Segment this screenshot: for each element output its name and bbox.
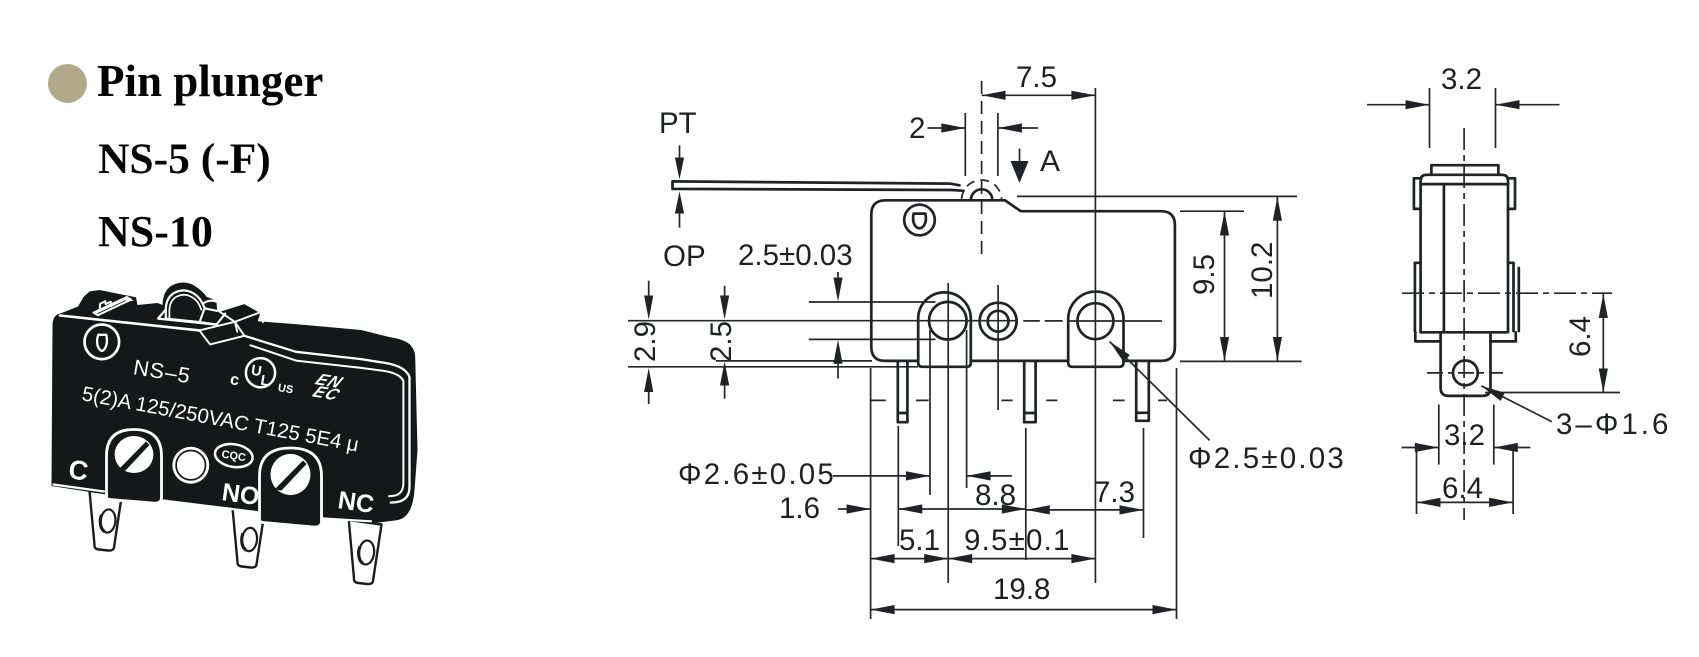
photo: ENEC logo — [305, 370, 352, 404]
side view: horizontal centerline upper — [1402, 292, 1612, 294]
photo: cULus logo — [229, 358, 294, 396]
svg-text:Pin plunger: Pin plunger — [97, 56, 323, 106]
svg-text:1.6: 1.6 — [779, 492, 820, 525]
svg-text:19.8: 19.8 — [993, 573, 1050, 606]
svg-text:7.5: 7.5 — [1016, 61, 1057, 94]
svg-text:2: 2 — [909, 112, 925, 145]
front view: left hole (2.6x2.5) — [929, 302, 967, 340]
front view: horizontal centerline through holes — [628, 320, 1162, 322]
side view: inner vertical line — [1443, 184, 1446, 332]
svg-text:OP: OP — [663, 240, 706, 273]
photo: NC terminal blade — [349, 520, 382, 584]
photo: plunger base platform — [158, 310, 225, 325]
front view: plunger pin solid semicircle — [971, 189, 992, 200]
photo: left screw boss — [107, 430, 162, 504]
front view: vertical centerline right hole / 7.5 extension — [1094, 88, 1096, 583]
side dim 6.4 right (rotated) — [1485, 293, 1620, 392]
svg-text:2.9: 2.9 — [629, 321, 662, 362]
side view: inner seam line — [1421, 183, 1508, 186]
front view: vertical extension lines below — [871, 330, 1177, 619]
dim 2 — [928, 113, 1039, 176]
svg-text:Φ2.5±0.03: Φ2.5±0.03 — [1188, 442, 1346, 475]
svg-text:3.2: 3.2 — [1441, 63, 1482, 96]
front view: middle hole double circle — [980, 303, 1017, 340]
svg-text:NC: NC — [336, 486, 376, 519]
svg-text:6.4: 6.4 — [1442, 472, 1483, 505]
photo: plunger dome base and side face — [166, 301, 217, 325]
photo: NO terminal blade — [233, 508, 265, 568]
bullet dot — [48, 64, 87, 103]
svg-text:3.2: 3.2 — [1444, 419, 1485, 452]
photo of switch: C terminal blade — [90, 491, 123, 551]
svg-text:9.5±0.1: 9.5±0.1 — [964, 524, 1071, 557]
photo: CQC oval — [213, 441, 254, 469]
svg-text:3–Φ1.6: 3–Φ1.6 — [1556, 408, 1671, 441]
svg-text:7.3: 7.3 — [1094, 476, 1135, 509]
front view: hole tangent extension lines for 2.5 dim — [809, 302, 936, 339]
svg-text:2.5: 2.5 — [705, 321, 738, 362]
photo: right screw boss — [260, 448, 322, 527]
front view: plunger free position dashed arc — [962, 180, 1002, 200]
side view: plunger cap — [1431, 165, 1498, 175]
front view: boss bottom extension left — [628, 366, 918, 368]
front view: lever — [673, 181, 964, 190]
label A with arrow — [1019, 149, 1021, 167]
dim 2.9 (rotated) — [648, 281, 650, 404]
dim 7.5 — [982, 94, 1096, 96]
svg-text:9.5: 9.5 — [1188, 254, 1221, 295]
front view: right mounting boss — [1068, 292, 1123, 367]
side view: vertical centerline — [1463, 128, 1465, 520]
front view: vertical centerline middle hole — [997, 285, 999, 410]
front view: molded circle with keyhole top-left — [904, 205, 935, 236]
svg-text:6.4: 6.4 — [1564, 316, 1597, 357]
side view: lower side tabs — [1415, 263, 1519, 331]
front view: left mounting boss — [918, 292, 971, 366]
front view: NC terminal pin — [1136, 361, 1149, 421]
front view: case outline — [871, 200, 1175, 361]
svg-text:C: C — [67, 454, 90, 486]
photo: white middle circle — [172, 447, 209, 484]
dim 9.5 (right, rotated) — [1224, 212, 1226, 362]
front view: vertical centerline left hole — [947, 283, 949, 583]
svg-text:2.5±0.03: 2.5±0.03 — [738, 239, 853, 272]
svg-text:PT: PT — [659, 107, 697, 140]
side view: upper side tabs — [1414, 178, 1515, 209]
side view: bottom feet — [1415, 332, 1516, 341]
front view: NO terminal pin — [1024, 361, 1035, 422]
svg-text:5.1: 5.1 — [899, 524, 940, 557]
front view: dash-dot line through pins — [870, 399, 1167, 401]
front view: C terminal pin — [898, 361, 908, 422]
svg-text:US: US — [277, 382, 294, 396]
svg-text:NS-5 (-F): NS-5 (-F) — [98, 135, 271, 183]
svg-text:NS-10: NS-10 — [98, 207, 213, 256]
photo: bottom chamfer lines — [54, 485, 372, 522]
svg-text:Φ2.6±0.05: Φ2.6±0.05 — [678, 458, 836, 491]
side view: body outline — [1421, 175, 1508, 332]
photo: circled triangle mark — [85, 325, 120, 360]
svg-text:10.2: 10.2 — [1246, 242, 1279, 299]
front view: case bottom extension left — [716, 360, 872, 362]
svg-text:NO: NO — [220, 478, 261, 511]
front view: top extension lines 9.5 and 10.2 — [1017, 196, 1302, 361]
photo: switch body (black) — [52, 283, 418, 523]
side view: terminal blade — [1441, 332, 1491, 396]
side view: horizontal centerline through hole — [1427, 372, 1503, 374]
dim 2.5 (rotated) — [724, 286, 726, 399]
front view: right hole (2.5) — [1077, 303, 1113, 339]
photo: plunger dome front arch — [166, 290, 205, 318]
photo: bevel step right of plunger — [199, 303, 263, 344]
front view: dashed vertical centerline at plunger — [981, 81, 983, 257]
svg-text:A: A — [1040, 145, 1060, 178]
photo: top-face front edge line — [60, 316, 199, 331]
side view: terminal hole — [1453, 361, 1478, 386]
leader phi2.5+-0.03 — [1110, 342, 1210, 441]
dim 10.2 (right, rotated) — [1276, 197, 1278, 361]
photo: double border line outer — [244, 336, 409, 503]
photo: top bracket detail — [94, 297, 132, 315]
photo: double border line inner — [251, 345, 404, 496]
